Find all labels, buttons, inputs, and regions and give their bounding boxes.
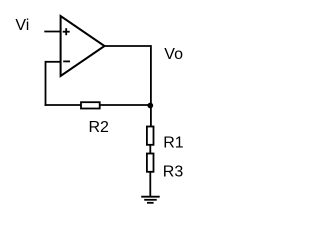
- svg-text:R3: R3: [163, 163, 184, 180]
- wire R2 to junction node: [100, 104, 151, 106]
- wire R3 to ground: [149, 172, 151, 197]
- svg-text:R2: R2: [89, 119, 110, 136]
- node junction feedback/output: [147, 103, 153, 109]
- ground: [141, 197, 160, 203]
- wire Vi stub to non-inverting input: [44, 31, 60, 33]
- wire feedback vertical: [45, 61, 47, 106]
- wire op-amp output horizontal: [105, 45, 152, 47]
- svg-text:R1: R1: [163, 135, 184, 152]
- resistor R3: [147, 154, 154, 172]
- op-amp U1: [61, 16, 105, 76]
- svg-text:Vi: Vi: [15, 17, 29, 34]
- svg-text:Vo: Vo: [164, 46, 183, 63]
- resistor R1: [147, 127, 154, 145]
- resistor R2: [81, 102, 100, 108]
- wire output vertical down to R1: [150, 45, 152, 127]
- wire inverting input to feedback corner: [46, 61, 61, 63]
- wire R1 to R3: [149, 145, 151, 154]
- wire feedback bottom to R2: [45, 104, 81, 106]
